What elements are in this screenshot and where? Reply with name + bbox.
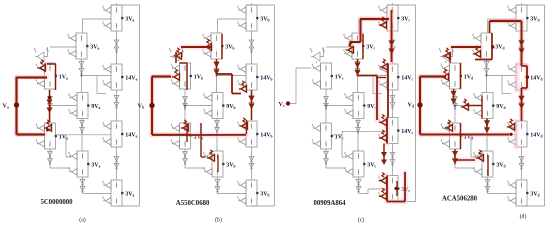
wire M to R2 panel c — [357, 75, 388, 94]
inverter pair P3 panel a — [114, 157, 119, 170]
wire M to R2 panel b — [216, 75, 247, 94]
wire M3 to R4 panel b — [218, 193, 228, 195]
amp cell M3 3V panel b — [204, 151, 224, 177]
inverter pair P5 panel d — [485, 121, 490, 134]
wire L to M2 panel a — [49, 105, 77, 107]
bus wires panel a — [50, 31, 117, 194]
wire L to M2 panel b — [184, 105, 212, 107]
inverter pair P8 panel d — [485, 180, 490, 193]
inverter pair P4 panel c — [355, 62, 360, 75]
input Vin panel d — [408, 101, 414, 108]
wire to R3 panel d — [462, 134, 472, 136]
buffer T1 panel b — [169, 47, 183, 63]
node labels panel d — [460, 16, 543, 197]
wire M3 to R4 panel c — [359, 193, 369, 195]
inverter pair P6 panel b — [183, 97, 188, 110]
svg-text:(d): (d) — [520, 213, 527, 220]
amp cell M1 3V panel d — [473, 33, 493, 59]
svg-text:A550C0680: A550C0680 — [176, 200, 210, 207]
amp cell L1 1V panel a — [36, 63, 56, 89]
inverter pair P6 panel c — [324, 97, 329, 110]
inverter pair P8 panel b — [215, 180, 220, 193]
output rail panel a — [112, 3, 140, 206]
inverter pair P6 panel d — [453, 97, 458, 110]
inverter pair P2 panel a — [114, 96, 119, 109]
amp cell L2 1V panel a — [36, 123, 56, 149]
inverter pair P2 panel b — [249, 96, 254, 109]
amp cell M1 3V panel a — [68, 33, 88, 59]
amp cell M2 9V panel d — [474, 93, 494, 119]
svg-text:(b): (b) — [215, 217, 222, 224]
buffer T1 panel c — [310, 47, 324, 63]
wire R1 input panel d — [488, 19, 517, 33]
panel (c) highlighted path — [346, 10, 405, 202]
amp cell R2 14V panel c — [379, 64, 399, 90]
amp cell R1 3V panel b — [238, 5, 258, 31]
inverter pair P5 panel c — [356, 121, 361, 134]
buffer T1 panel d — [439, 47, 453, 63]
bus wires panel b — [185, 31, 252, 194]
panel (d) highlighted path — [408, 21, 530, 176]
amp cell M1 3V panel c — [344, 33, 364, 59]
amp cell R2 14V panel d — [508, 64, 528, 90]
wire R1 input panel b — [218, 19, 247, 33]
inverter pair P1 panel c — [390, 40, 395, 53]
wire to R3 panel a — [57, 134, 67, 136]
inverter pair P4 panel d — [484, 62, 489, 75]
amp cell M1 3V panel b — [203, 33, 223, 59]
inverter pair P7 panel d — [453, 152, 458, 165]
wire T1 to M1 panel a — [50, 46, 76, 48]
svg-text:(a): (a) — [79, 217, 86, 224]
panel (c) grey input route — [279, 68, 312, 108]
inverter pair P3 panel d — [519, 157, 524, 170]
inverter pair P2 panel c — [390, 96, 395, 109]
amp cell R4 3V panel d — [508, 180, 528, 206]
wire to M3 panel a — [50, 135, 71, 168]
amp cell R2 14V panel b — [238, 64, 258, 90]
output rail panel c — [388, 3, 416, 201]
inverter pair P6 panel a — [48, 97, 53, 110]
amp cell R1 3V panel c — [379, 5, 399, 31]
inverter pair P4 panel a — [79, 62, 84, 75]
inverter pair P5 panel b — [215, 121, 220, 134]
wire T1 to M1 panel d — [455, 46, 481, 48]
inverter pair P7 panel c — [324, 152, 329, 165]
amp cell R1 3V panel d — [508, 5, 528, 31]
wire M to R2 panel a — [81, 75, 112, 94]
output rail panel b — [247, 3, 275, 206]
amp cell R3 14V panel a — [103, 121, 123, 147]
input Vin panel c — [279, 101, 285, 108]
inverter pair P3 panel b — [249, 157, 254, 170]
amp cell R2 14V panel a — [103, 64, 123, 90]
amp cell L2 1V panel d — [441, 123, 461, 149]
panel (a) highlighted path — [3, 60, 56, 135]
wire R1 input panel c — [359, 19, 388, 33]
inverter pair P2 panel d — [519, 96, 524, 109]
wire to R3 panel b — [192, 134, 202, 136]
amp cell L2 1V panel c — [312, 123, 332, 149]
node labels panel c — [331, 16, 414, 193]
amp cell R3 14V panel c — [379, 118, 399, 144]
inverter pair P1 panel b — [249, 40, 254, 53]
panel (b) highlighted path — [138, 34, 254, 172]
inverter pair P1 panel a — [114, 40, 119, 53]
inverter pair P8 panel a — [80, 180, 85, 193]
svg-text:5C0000000: 5C0000000 — [40, 199, 73, 206]
wire to M3 panel d — [455, 135, 476, 168]
inverter pair P4 panel b — [214, 62, 219, 75]
amp cell M2 9V panel a — [69, 93, 89, 119]
bus wires panel c — [326, 31, 393, 194]
inverter pair P3 panel c — [390, 153, 395, 166]
wire L to M2 panel c — [325, 105, 353, 107]
wire R1 input panel a — [83, 19, 112, 33]
input Vin panel a — [3, 102, 9, 109]
amp cell M2 9V panel c — [345, 93, 365, 119]
wire to M3 panel c — [326, 135, 347, 168]
buffer T1 panel a — [34, 47, 48, 63]
wire M3 to R4 panel a — [83, 193, 93, 195]
amp cell M3 3V panel d — [474, 151, 494, 177]
amp cell L1 1V panel d — [441, 63, 461, 89]
wire M3 to R4 panel d — [488, 193, 498, 195]
bus wires panel d — [455, 31, 522, 194]
amp cell L1 1V panel b — [171, 63, 191, 89]
amp cell R4 3V panel a — [103, 180, 123, 206]
amp cell R4 3V panel c — [379, 176, 399, 202]
svg-text:ACA506280: ACA506280 — [442, 195, 478, 202]
wire to R3 panel c — [333, 134, 343, 136]
amp cell R3 14V panel b — [238, 121, 258, 147]
node labels panel a — [55, 16, 138, 197]
inverter pair P7 panel a — [48, 152, 53, 165]
inverter pair P7 panel b — [183, 152, 188, 165]
inverter pair P5 panel a — [80, 121, 85, 134]
amp cell L2 1V panel b — [171, 123, 191, 149]
wire T1 to M1 panel b — [185, 46, 211, 48]
svg-text:00909A864: 00909A864 — [313, 200, 346, 207]
wire M to R2 panel d — [486, 75, 517, 94]
amp cell R1 3V panel a — [103, 5, 123, 31]
amp cell M2 9V panel b — [204, 93, 224, 119]
node labels panel b — [190, 16, 273, 197]
amp cell L1 1V panel c — [312, 63, 332, 89]
amp cell R3 14V panel d — [508, 121, 528, 147]
wire L to M2 panel d — [454, 105, 482, 107]
wire T1 to M1 panel c — [326, 46, 352, 48]
inverter pair P8 panel c — [356, 180, 361, 193]
amp cell R4 3V panel b — [238, 180, 258, 206]
amp cell M3 3V panel c — [345, 151, 365, 177]
output rail panel d — [517, 3, 545, 206]
inverter pair P1 panel d — [519, 40, 524, 53]
amp cell M3 3V panel a — [69, 151, 89, 177]
wire to M3 panel b — [185, 135, 206, 168]
input Vin panel b — [138, 102, 144, 109]
svg-text:(c): (c) — [358, 217, 365, 224]
